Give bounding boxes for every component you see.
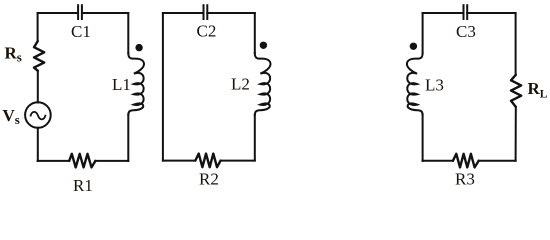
wire top-left of loop3 bbox=[423, 12, 464, 14]
svg-text:Rs: Rs bbox=[5, 44, 22, 65]
svg-text:L3: L3 bbox=[425, 75, 444, 94]
svg-text:Vs: Vs bbox=[3, 106, 20, 127]
wire bottom-right of loop1 (R1 to corner) bbox=[95, 160, 128, 162]
resistor R1 bbox=[69, 154, 95, 168]
svg-text:R2: R2 bbox=[199, 169, 219, 188]
wire left lower (source to corner) bbox=[37, 128, 39, 161]
svg-text:L1: L1 bbox=[112, 75, 131, 94]
svg-text:R1: R1 bbox=[73, 176, 93, 195]
wire bottom-left of loop2 bbox=[163, 160, 195, 162]
wire top-right of loop3 bbox=[467, 12, 515, 14]
wire bottom-right of loop3 bbox=[479, 160, 516, 162]
wire left upper (corner down to Rs) bbox=[37, 13, 39, 41]
svg-text:C1: C1 bbox=[71, 22, 91, 41]
wire bottom-left of loop3 bbox=[423, 160, 453, 162]
wire top-right of loop2 bbox=[207, 12, 255, 14]
inductor L3 bbox=[407, 53, 423, 115]
wire left of loop2 bbox=[162, 13, 164, 161]
svg-text:R3: R3 bbox=[455, 170, 475, 189]
svg-text:C3: C3 bbox=[456, 22, 476, 41]
coupling dot L2 bbox=[260, 42, 267, 49]
resistor R3 bbox=[453, 154, 479, 168]
capacitor C1 bbox=[78, 5, 82, 19]
inductor L2 bbox=[255, 53, 271, 115]
wire bottom-right of loop2 bbox=[221, 160, 255, 162]
sine wave inside source bbox=[31, 112, 46, 120]
wire left upper of loop3 (corner down to L3) bbox=[422, 13, 424, 53]
capacitor C3 bbox=[464, 5, 468, 19]
wire right lower of loop1 (L1 to corner) bbox=[127, 115, 129, 161]
capacitor C2 bbox=[204, 5, 208, 19]
svg-text:RL: RL bbox=[528, 79, 548, 101]
svg-text:L2: L2 bbox=[231, 75, 250, 94]
resistor Rs bbox=[34, 41, 44, 71]
resistor RL bbox=[511, 75, 521, 107]
wire right lower of loop3 (RL to corner) bbox=[515, 107, 517, 161]
wire top-left of loop2 bbox=[163, 12, 204, 14]
wire right upper of loop1 (corner down to L1) bbox=[127, 13, 129, 53]
wire right upper of loop3 (corner to RL) bbox=[515, 13, 517, 75]
wire bottom-left (corner to R1) bbox=[38, 160, 70, 162]
resistor R2 bbox=[195, 154, 220, 168]
wire left lower of loop3 bbox=[422, 115, 424, 161]
inductor L1 bbox=[128, 53, 144, 115]
AC source Vs circle bbox=[25, 102, 51, 128]
svg-text:C2: C2 bbox=[197, 22, 217, 41]
coupling dot L1 bbox=[135, 44, 142, 51]
wire right upper of loop2 bbox=[254, 13, 256, 53]
wire top-left horizontal (corner to C1 left plate) bbox=[38, 12, 78, 14]
coupling dot L3 bbox=[410, 43, 417, 50]
wire left mid (Rs to source) bbox=[37, 71, 39, 103]
wire right lower of loop2 bbox=[254, 115, 256, 161]
wire top-right of loop1 (C1 to corner) bbox=[82, 12, 128, 14]
